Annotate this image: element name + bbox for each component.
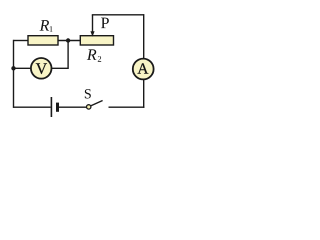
node: junction dot after R1 (66, 38, 70, 42)
battery short electrode (-) (56, 103, 59, 112)
slider wire vertical with arrow P (92, 15, 94, 32)
wire: voltmeter right lead (52, 67, 69, 69)
wire: R1 to R2 horizontal (58, 40, 81, 42)
battery long electrode (+) (50, 97, 52, 117)
wire: left vertical side (13, 40, 15, 108)
label P (101, 18, 109, 28)
wire: top-left horizontal from left corner to R1 (14, 40, 29, 42)
rheostat R2 (80, 36, 113, 45)
switch S lever (89, 101, 103, 107)
label R1 (40, 20, 50, 30)
slider arrowhead (90, 31, 94, 37)
label S (85, 89, 91, 98)
label R2 (87, 49, 97, 59)
wire: voltmeter left lead (14, 67, 32, 69)
wire: right vertical lower (ammeter to bottom corner) (143, 79, 145, 108)
ammeter A (133, 59, 154, 80)
wire: bottom right horizontal (corner to switch) (109, 106, 145, 108)
switch pivot (87, 105, 91, 109)
wire: slider top horizontal (92, 14, 144, 16)
wire: battery to switch (59, 106, 87, 108)
wire: bottom left horizontal (14, 106, 51, 108)
wire: voltmeter vertical lead up to junction (67, 41, 69, 70)
node: junction dot on left wire (11, 66, 15, 70)
voltmeter V (31, 58, 52, 79)
wire: right vertical upper (to ammeter) (143, 14, 145, 59)
resistor R1 (28, 36, 58, 45)
